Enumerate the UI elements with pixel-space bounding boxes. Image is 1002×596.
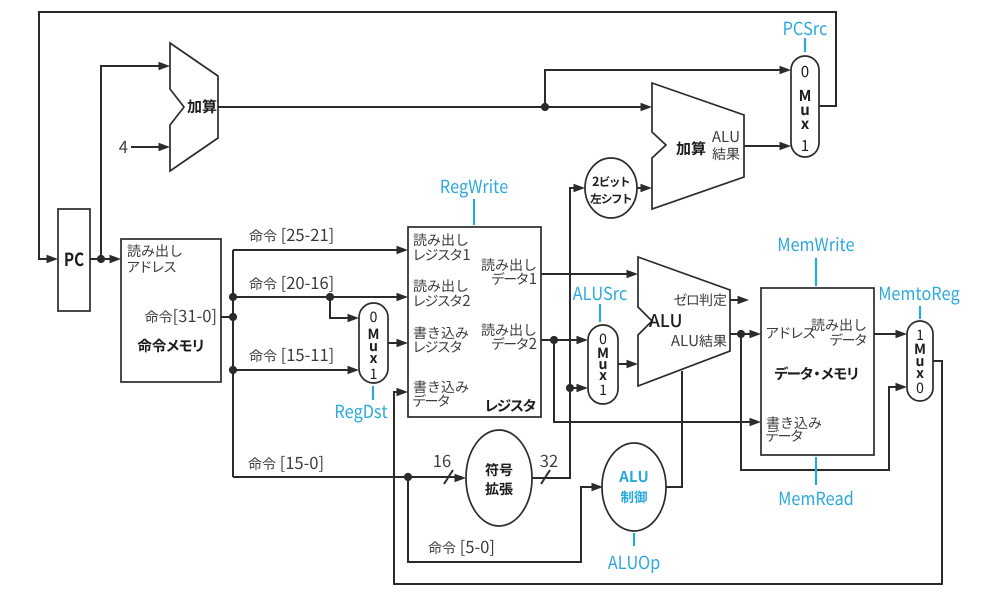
port write data line2 <box>766 429 802 442</box>
label PC <box>65 252 83 266</box>
label instruction[25-21] <box>249 228 332 244</box>
node instruction bus junction1 <box>229 293 237 301</box>
wire ALU result to data memory address <box>730 333 757 335</box>
register PC <box>58 209 90 311</box>
wire ALUSrc mux output to ALU <box>618 363 634 365</box>
shift left 2 <box>585 158 637 218</box>
label ALU <box>649 314 681 327</box>
wire instruction bus vertical <box>232 250 234 477</box>
label PCSrc <box>784 22 827 36</box>
port write data line2 <box>413 394 449 407</box>
label adder2 <box>676 141 705 155</box>
label RegWrite <box>441 179 507 197</box>
node PC output junction <box>97 255 105 263</box>
wire instruction[15-11] to RegDst mux input1 <box>233 369 355 371</box>
wire RegDst mux output to write register <box>388 342 404 344</box>
port write data line1 <box>414 380 469 393</box>
wire constant 4 to adder1 <box>131 146 166 148</box>
port read register2 line2 <box>415 295 470 307</box>
wire ALU result to MemtoReg mux input0 <box>741 334 903 470</box>
port read register1 line1 <box>414 233 468 246</box>
port read data line1 <box>812 318 866 331</box>
label instruction[15-0] <box>248 456 322 472</box>
mux RegDst <box>359 303 388 383</box>
label instruction[20-16] <box>249 276 332 292</box>
label ALUSrc <box>573 287 627 301</box>
label 16 <box>434 455 450 468</box>
wire instruction memory output <box>221 316 233 318</box>
wire read data2 to data memory write data <box>554 340 757 422</box>
port address <box>767 327 815 338</box>
label ALU-control line2 <box>621 491 647 504</box>
wire sign extend to ALUSrc mux input1 <box>570 387 584 389</box>
label MemtoReg <box>880 287 960 305</box>
port read register2 line1 <box>414 279 468 292</box>
label adder2 ALU result line1 <box>712 131 739 142</box>
wire PC feedback from PCSrc mux output <box>39 12 836 259</box>
node instruction[15-0] junction <box>404 473 412 481</box>
node instruction bus junction2 <box>229 313 237 321</box>
tick PCSrc <box>804 38 806 52</box>
wire instruction[20-16] to RegDst mux input0 <box>330 297 355 318</box>
slash 16-bit <box>444 470 453 484</box>
label read-address line1 <box>128 244 182 257</box>
port read data2 line2 <box>492 337 536 350</box>
wire instruction[25-21] to read register1 <box>233 249 404 251</box>
node read data2 junction <box>550 336 558 344</box>
label instruction[31-0] <box>145 309 215 325</box>
label instruction[5-0] <box>428 540 493 556</box>
wire instruction[15-0] to sign extend <box>233 476 462 478</box>
wire instruction[5-0] to ALU control <box>408 477 599 562</box>
label shift-left-2 line1 <box>593 176 630 187</box>
wire instruction[20-16] to read register2 <box>233 296 404 298</box>
tick RegWrite <box>473 199 475 225</box>
label sign-extend line1 <box>485 463 512 476</box>
slash 32-bit <box>541 470 550 484</box>
wire shift-left-2 to adder2 <box>637 187 648 189</box>
wire memory read data to MemtoReg mux input1 <box>874 333 903 335</box>
instruction memory box <box>121 239 221 382</box>
port write data line1 <box>767 416 822 429</box>
label shift-left-2 line2 <box>590 193 631 204</box>
sign extend <box>466 430 532 526</box>
label ALUOp <box>608 556 660 574</box>
wire PC to adder1 <box>101 66 166 259</box>
node ALU result junction <box>737 330 745 338</box>
label zero <box>674 293 726 306</box>
ALU control <box>602 443 666 531</box>
wire PC+4 to PCSrc mux input0 <box>545 70 787 107</box>
wire ALU control output to ALU <box>666 371 682 487</box>
tick ALUSrc <box>599 304 601 322</box>
wire MemtoReg mux output to register write data <box>394 361 942 584</box>
ALU <box>638 257 730 386</box>
label ALU-control line1 <box>619 471 647 482</box>
mux MemtoReg <box>907 321 933 401</box>
port read data2 line1 <box>482 323 536 336</box>
node PC+4 junction <box>541 103 549 111</box>
tick MemRead <box>815 457 817 485</box>
port read register1 line2 <box>415 249 469 261</box>
label adder1 <box>187 99 216 113</box>
register file box <box>408 227 541 417</box>
tick RegDst <box>372 386 374 400</box>
label read-address line2 <box>128 261 176 272</box>
label instruction memory <box>138 339 203 353</box>
label ALU result <box>671 334 727 347</box>
port read data1 line2 <box>492 272 536 285</box>
node sign-extend output junction <box>566 384 574 392</box>
label sign-extend line2 <box>485 482 513 495</box>
mux ALUSrc <box>588 325 618 404</box>
label constant 4 <box>119 141 127 153</box>
mux PCSrc <box>791 56 819 157</box>
label registers <box>487 399 536 412</box>
port write register line1 <box>414 326 469 339</box>
wire sign extend output up to shift-left-2 <box>532 188 581 478</box>
data memory box <box>761 288 874 455</box>
node instruction[20-16] junction <box>326 293 334 301</box>
wire zero output <box>730 299 745 301</box>
label MemWrite <box>779 237 854 251</box>
label data memory <box>775 366 857 380</box>
wire read data2 to ALUSrc mux input0 <box>541 339 584 341</box>
label adder2 ALU result line2 <box>712 147 739 160</box>
node instruction bus junction3 <box>229 366 237 374</box>
tick MemWrite <box>815 258 817 286</box>
label instruction[15-11] <box>249 348 332 364</box>
tick MemtoReg <box>919 306 921 319</box>
label MemRead <box>780 491 852 506</box>
wire adder1 output (PC+4) <box>218 106 648 108</box>
label RegDst <box>336 405 387 423</box>
wire PC to instruction memory <box>90 258 117 260</box>
adder branch <box>652 83 744 209</box>
label 32 <box>540 455 557 468</box>
wire adder2 output to PCSrc mux input1 <box>744 145 787 147</box>
port write register line2 <box>415 341 461 353</box>
adder PC+4 <box>170 43 218 171</box>
port read data line2 <box>830 333 866 346</box>
port read data1 line1 <box>482 258 536 271</box>
tick ALUOp <box>633 533 635 546</box>
wire read data1 to ALU <box>541 273 634 275</box>
